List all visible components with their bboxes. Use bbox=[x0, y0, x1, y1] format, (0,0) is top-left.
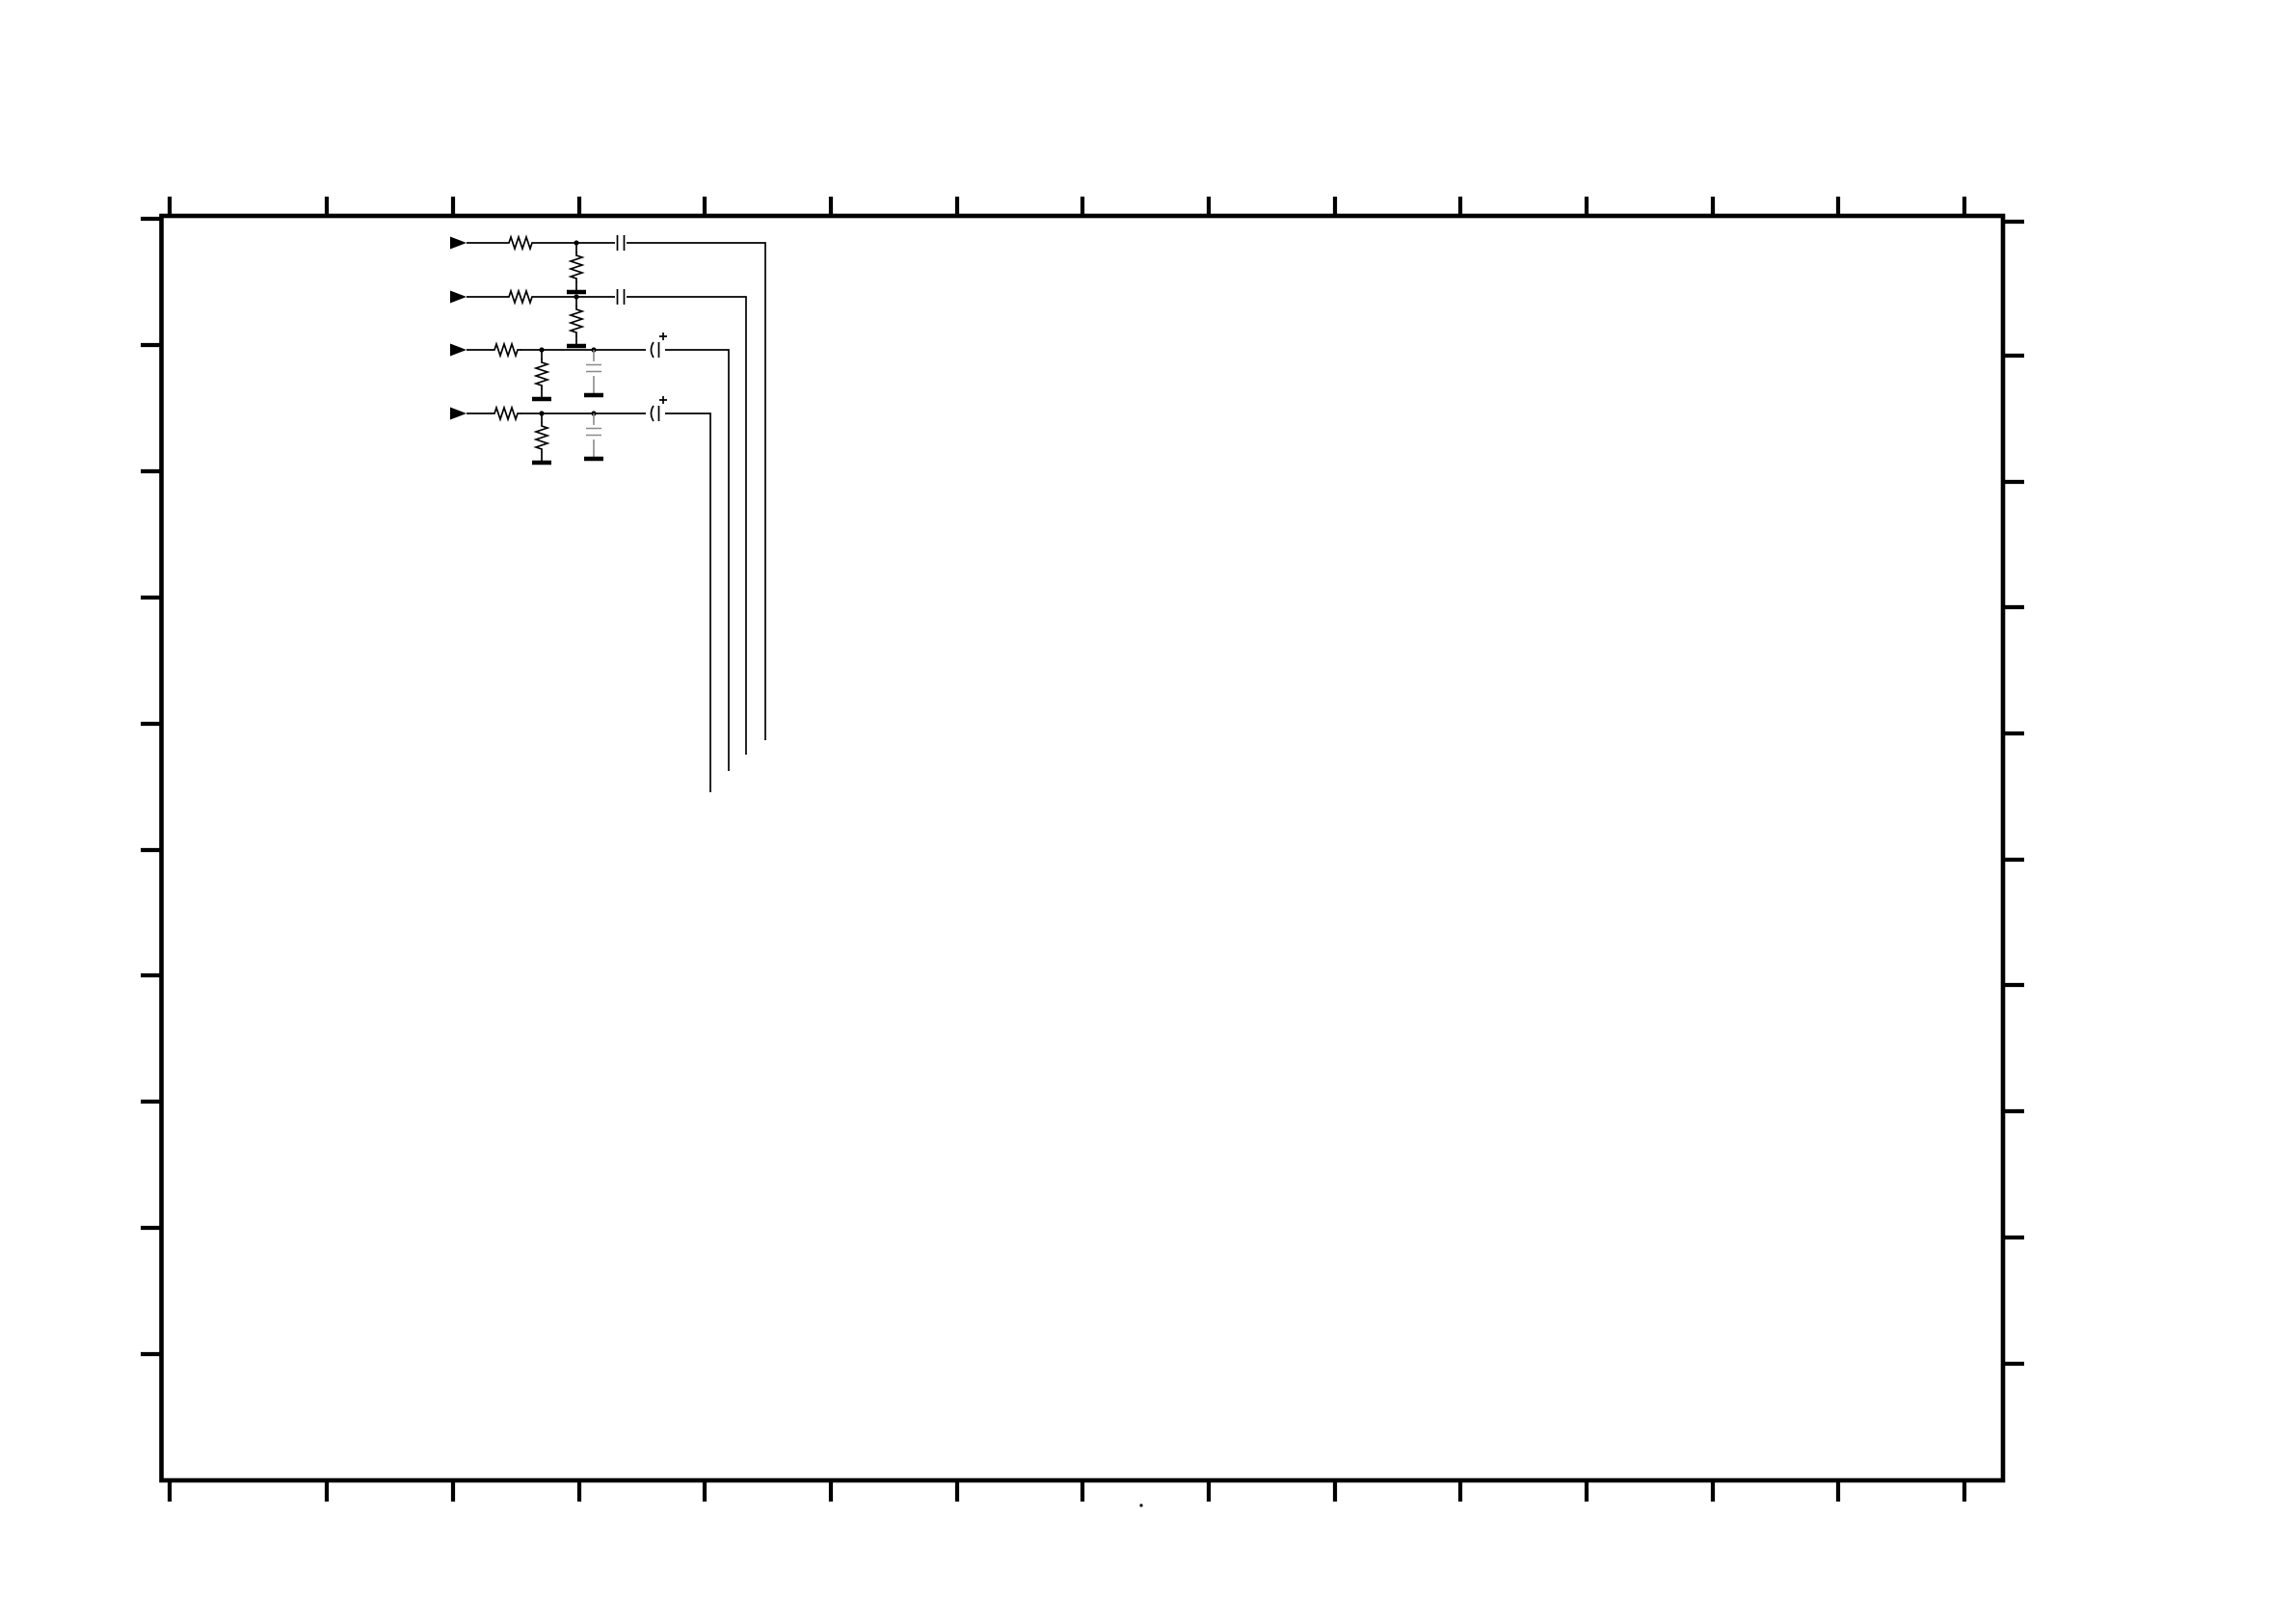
wire bbox=[575, 243, 577, 291]
resistor R2 bbox=[571, 252, 582, 282]
ground bbox=[584, 394, 603, 396]
ground bbox=[567, 291, 586, 293]
ground bbox=[532, 462, 551, 464]
capacitor C4 polarized bbox=[652, 333, 668, 358]
wire bbox=[541, 413, 543, 462]
capacitor C6 polarized bbox=[652, 396, 668, 421]
capacitor C3 bbox=[586, 365, 601, 372]
node bbox=[539, 347, 544, 352]
resistor R1 bbox=[505, 237, 536, 249]
wire bbox=[467, 350, 729, 771]
wire bbox=[593, 413, 595, 457]
resistor R7 bbox=[491, 408, 521, 419]
node bbox=[574, 240, 578, 245]
node bbox=[539, 411, 544, 415]
ground bbox=[567, 345, 586, 347]
node bbox=[574, 294, 578, 299]
wire bbox=[467, 297, 746, 755]
wire bbox=[575, 297, 577, 345]
input arrow IN1 bbox=[450, 237, 467, 250]
wire bbox=[467, 413, 710, 792]
resistor R6 bbox=[536, 359, 547, 389]
resistor R4 bbox=[571, 306, 582, 336]
resistor R8 bbox=[536, 422, 547, 453]
node bbox=[591, 347, 596, 352]
ground bbox=[584, 458, 603, 460]
input arrow IN3 bbox=[450, 344, 467, 357]
input arrow IN2 bbox=[450, 291, 467, 304]
input arrow IN4 bbox=[450, 408, 467, 420]
resistor R5 bbox=[491, 344, 521, 356]
node bbox=[591, 411, 596, 415]
resistor R3 bbox=[505, 291, 536, 303]
ground bbox=[532, 398, 551, 400]
capacitor C1 bbox=[618, 235, 625, 251]
capacitor C5 bbox=[586, 429, 601, 436]
wire bbox=[541, 350, 543, 398]
wire bbox=[467, 243, 765, 740]
capacitor C2 bbox=[618, 289, 625, 305]
wire bbox=[593, 350, 595, 393]
